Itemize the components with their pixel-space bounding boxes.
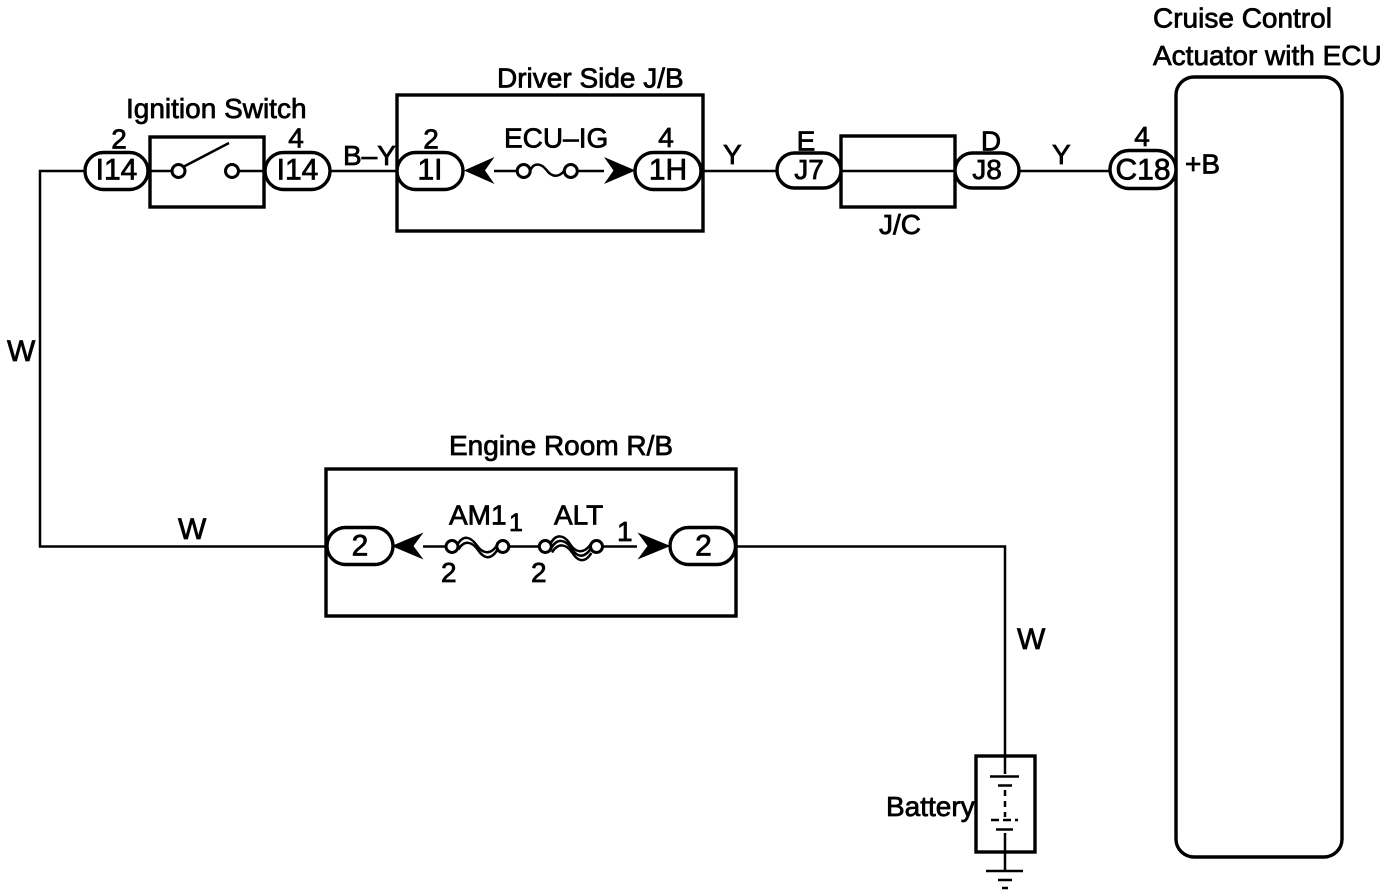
svg-text:B–Y: B–Y <box>343 140 396 171</box>
svg-text:2: 2 <box>441 557 457 588</box>
svg-text:Ignition Switch: Ignition Switch <box>126 93 307 124</box>
svg-text:1H: 1H <box>649 154 687 187</box>
svg-text:Driver Side J/B: Driver Side J/B <box>497 63 684 94</box>
svg-text:4: 4 <box>288 123 304 154</box>
svg-text:W: W <box>178 513 207 546</box>
svg-text:2: 2 <box>423 124 439 155</box>
svg-text:1: 1 <box>509 509 523 537</box>
svg-text:ALT: ALT <box>554 500 603 531</box>
svg-text:C18: C18 <box>1115 154 1170 187</box>
svg-text:D: D <box>981 126 1001 157</box>
svg-text:I14: I14 <box>277 154 319 187</box>
svg-text:ECU–IG: ECU–IG <box>504 123 608 154</box>
svg-text:2: 2 <box>695 530 712 563</box>
svg-text:I14: I14 <box>96 154 138 187</box>
svg-text:J/C: J/C <box>879 209 921 240</box>
svg-text:4: 4 <box>658 122 674 153</box>
svg-text:2: 2 <box>111 124 127 155</box>
svg-text:Engine Room R/B: Engine Room R/B <box>449 430 673 461</box>
svg-text:W: W <box>7 335 36 368</box>
svg-text:J7: J7 <box>794 154 824 185</box>
svg-text:2: 2 <box>531 557 547 588</box>
svg-text:2: 2 <box>352 530 369 563</box>
svg-text:Y: Y <box>1052 139 1071 170</box>
svg-text:Battery: Battery <box>886 791 975 822</box>
svg-text:4: 4 <box>1134 121 1150 152</box>
svg-text:1: 1 <box>617 516 633 547</box>
svg-text:+B: +B <box>1185 149 1220 180</box>
svg-text:Actuator with ECU: Actuator with ECU <box>1153 40 1382 71</box>
svg-text:E: E <box>797 126 816 157</box>
svg-text:Cruise Control: Cruise Control <box>1153 3 1332 34</box>
svg-text:J8: J8 <box>972 154 1002 185</box>
svg-text:AM1: AM1 <box>449 500 507 531</box>
svg-text:Y: Y <box>723 139 742 170</box>
svg-text:W: W <box>1017 623 1046 656</box>
svg-text:1I: 1I <box>417 154 442 187</box>
